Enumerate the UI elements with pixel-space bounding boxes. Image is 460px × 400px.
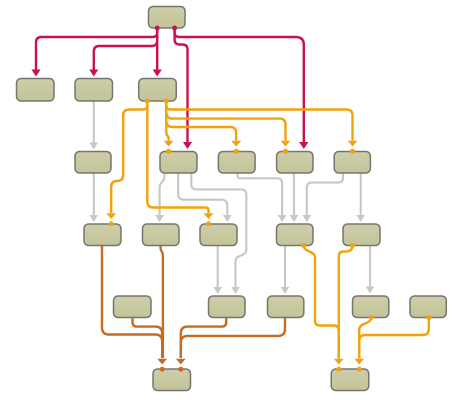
wire A3-C3 <box>147 101 208 213</box>
port D5 <box>426 315 431 320</box>
node S1 <box>153 369 191 391</box>
port A3-B2 head <box>166 149 171 154</box>
node D3 <box>268 296 304 318</box>
arrow A2-B1 <box>90 143 99 150</box>
port S1 right head <box>178 367 183 372</box>
node C3 <box>200 224 237 246</box>
wire T-A1 <box>36 28 157 70</box>
arrow C4C5-S2 <box>334 359 344 365</box>
wire T-B4 <box>175 28 304 142</box>
wire A3-B3 <box>166 101 236 141</box>
arrow A3-C1 <box>106 213 116 219</box>
port A3 right <box>164 99 169 104</box>
wire A3-B2 <box>166 101 168 141</box>
port A3-B3 head <box>234 149 239 154</box>
arrow S1 right <box>176 359 186 365</box>
node B1 <box>75 152 111 174</box>
wire B2-C2 <box>160 173 165 215</box>
arrow B4-C4 <box>290 215 299 222</box>
wire C5-S2 <box>339 246 353 359</box>
port D4 <box>369 315 374 320</box>
arrow B5-C4 <box>303 215 312 222</box>
node B3 <box>218 152 255 174</box>
arrow T-B4 <box>299 142 308 149</box>
wire B3-C4 <box>238 173 283 215</box>
arrow C5-D4 <box>366 287 375 294</box>
arrow A3-B3 <box>231 141 241 147</box>
port A3-B4 head <box>283 149 288 154</box>
arrow T-A3 <box>153 70 162 77</box>
port S2 left head <box>336 367 341 372</box>
arrow D4D5-S2 <box>354 359 364 365</box>
wire D5-S2 <box>359 318 429 359</box>
wire A2-B1 <box>93 101 95 143</box>
arrow T-A2 <box>89 70 98 77</box>
node B2 <box>160 152 197 174</box>
node A2 <box>75 79 113 102</box>
wire C5-D4 <box>369 246 371 287</box>
arrow A3-B2 <box>164 141 174 147</box>
arrow S1 left <box>157 359 167 365</box>
port C4 <box>301 243 306 248</box>
node S2 <box>331 369 369 391</box>
arrow B2-C3 <box>223 215 232 222</box>
port A3-B5 head <box>350 149 355 154</box>
port A3-C1 head <box>109 221 114 226</box>
wire B2-C3 <box>178 173 227 215</box>
wire C1-S1 <box>102 246 162 359</box>
wire A3-B4 <box>166 101 285 141</box>
node A3 <box>139 79 177 102</box>
arrow B2-D2 <box>231 287 240 294</box>
junction T left <box>155 26 160 31</box>
wire B1-C1 <box>93 173 95 215</box>
wire D4-S2 <box>359 318 371 359</box>
node D5 <box>410 296 446 318</box>
node D4 <box>353 296 389 318</box>
arrow C4-D3 <box>281 287 290 294</box>
wire B2-D2 <box>191 173 246 287</box>
wire T-A2 <box>94 28 157 70</box>
wire D3-S1 <box>181 318 285 359</box>
wire B5-C5 <box>360 173 362 215</box>
port C5 <box>350 243 355 248</box>
node C4 <box>277 224 314 246</box>
wire T-A3 <box>156 28 158 70</box>
port S2 right head <box>357 367 362 372</box>
arrow B2-C2 <box>155 215 164 222</box>
arrow T-B2 <box>183 142 192 149</box>
junction T right <box>172 26 177 31</box>
wire A3-C1 <box>111 101 147 213</box>
wire B4-C4 <box>293 173 295 215</box>
node D1 <box>114 296 152 318</box>
node D2 <box>209 296 246 318</box>
wire D1-S1 <box>133 318 163 359</box>
arrow T-A1 <box>31 70 40 77</box>
wire T-B2 <box>175 28 188 142</box>
arrow A3-B4 <box>281 141 291 147</box>
wire D2-S1 <box>181 318 226 359</box>
arrow C3-D2 <box>213 287 222 294</box>
wire C2-S1 <box>161 246 163 359</box>
port S1 left head <box>160 367 165 372</box>
arrow B1-C1 <box>90 215 99 222</box>
arrow A3-C3 <box>204 213 214 219</box>
wire C4-D3 <box>284 246 286 288</box>
node C5 <box>343 224 380 246</box>
port A3 left <box>145 99 150 104</box>
wire C3-D2 <box>217 246 219 288</box>
port A3-C3 head <box>206 221 211 226</box>
wire B5-C4 <box>307 173 343 215</box>
arrow B3-C4 <box>278 215 287 222</box>
wire A3-B5 <box>166 101 352 141</box>
node C2 <box>143 224 180 246</box>
arrow B5-C5 <box>356 215 365 222</box>
node A1 <box>17 79 55 102</box>
wire C4-S2 <box>304 246 339 359</box>
arrow A3-B5 <box>348 141 358 147</box>
node T <box>149 7 186 29</box>
node B4 <box>277 152 313 174</box>
node B5 <box>334 152 370 174</box>
node C1 <box>84 224 121 246</box>
